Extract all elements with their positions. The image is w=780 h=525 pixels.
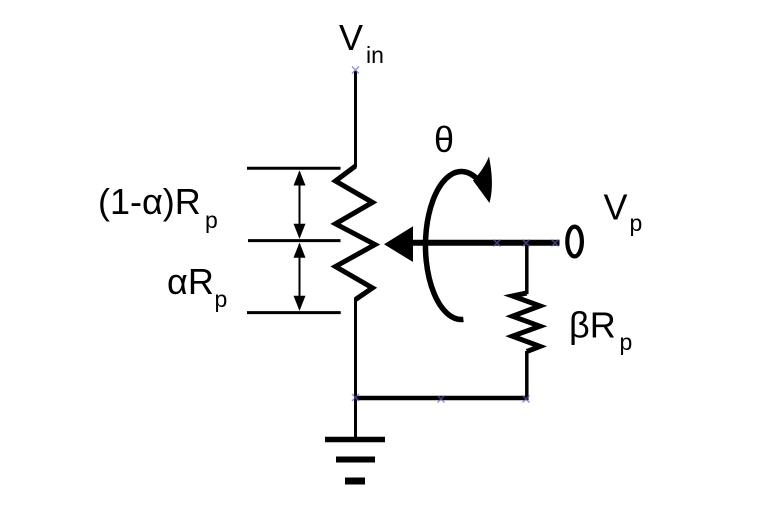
node marker wiper wire right — [552, 240, 559, 247]
ground bar 1 — [325, 437, 385, 443]
wire wiper to beta resistor — [525, 243, 529, 294]
wire bottom — [354, 396, 529, 401]
node marker top — [352, 67, 359, 74]
node marker wiper wire junction — [523, 240, 530, 247]
wire potentiometer bottom — [354, 298, 357, 398]
svg-text:in: in — [366, 42, 384, 68]
resistor beta-Rp zigzag — [513, 293, 541, 352]
node marker bottom middle — [438, 396, 445, 403]
svg-text:V: V — [604, 187, 628, 228]
tick line middle — [248, 239, 341, 242]
wire beta resistor bottom — [525, 351, 529, 400]
svg-text:βR: βR — [569, 305, 616, 346]
dimension arrow alphaRp — [294, 243, 306, 311]
ground bar 3 — [345, 478, 365, 485]
rotation arrow head — [473, 157, 492, 204]
wire wiper to Vp terminal — [411, 240, 560, 246]
svg-text:p: p — [620, 329, 633, 355]
dimension arrow (1-alpha)Rp — [294, 170, 306, 239]
potentiometer Rp zigzag — [336, 166, 376, 300]
tick line top — [247, 167, 341, 170]
wire ground stub — [354, 398, 357, 437]
svg-text:p: p — [215, 286, 228, 312]
node marker wiper wire left — [494, 240, 501, 247]
svg-text:p: p — [630, 210, 643, 236]
svg-text:θ: θ — [434, 119, 454, 160]
svg-text:p: p — [205, 207, 218, 233]
svg-text:αR: αR — [167, 261, 214, 302]
svg-text:V: V — [339, 17, 363, 58]
wire Vin to potentiometer top — [354, 71, 357, 167]
ground bar 2 — [336, 457, 375, 463]
terminal circle Vp — [567, 227, 582, 257]
rotation arc theta — [425, 172, 478, 320]
node marker bottom left — [352, 394, 359, 401]
svg-text:(1-α)R: (1-α)R — [98, 181, 201, 222]
tick line bottom — [247, 311, 341, 314]
wiper arrow — [384, 226, 413, 262]
node marker bottom right — [523, 396, 530, 403]
